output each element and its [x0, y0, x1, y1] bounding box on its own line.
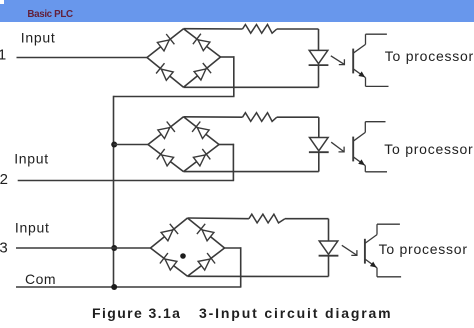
wire: R2 to LED drop	[277, 116, 319, 118]
wire: bridge BR3 edge left-top	[151, 218, 188, 248]
diode D2d (lower-right arm)	[193, 149, 210, 166]
wire: bridge BR2 edge bottom-left	[148, 145, 184, 172]
resistor R1	[243, 25, 277, 34]
junction: common bus to bridge2 left vertex	[111, 142, 117, 148]
wire: LED D3 return to bridge3 bottom vertex	[188, 275, 329, 277]
svg-text:3-Input circuit diagram: 3-Input circuit diagram	[199, 305, 392, 321]
diode D1a (lower-left arm)	[156, 63, 173, 80]
wire: terminal 2 riser	[232, 144, 234, 181]
wire: Com terminal lead	[16, 286, 241, 288]
wire: across to common bus	[114, 96, 235, 98]
optical coupling arrow 2	[331, 142, 344, 152]
optical coupling arrow 3	[342, 245, 357, 255]
diode D1b (upper-left arm)	[157, 34, 174, 51]
svg-text:To processor: To processor	[384, 141, 473, 157]
wire: LED D1 cathode down	[318, 65, 320, 87]
junction: common bus meets Com lead	[111, 284, 117, 290]
bridge rectifier BR3	[151, 218, 225, 276]
wire: bridge BR1 edge left-top	[147, 29, 184, 58]
junction: terminal 3 lead crossing common bus	[111, 245, 117, 251]
wire: terminal 2 input lead	[18, 180, 234, 182]
wire: bridge BR1 edge top-right	[184, 29, 221, 57]
wire: bridge BR3 edge bottom-left	[151, 248, 188, 276]
wire: bridge1 right vertex stub	[221, 56, 235, 58]
header bar (blue)	[0, 0, 474, 22]
resistor R2	[243, 113, 277, 122]
wire: vertical into LED D1 anode	[318, 29, 320, 50]
svg-text:2: 2	[0, 171, 8, 188]
phototransistor Q3	[365, 224, 401, 277]
wire: terminal 3 input lead	[16, 247, 151, 249]
LED D3 (optocoupler emitter)	[319, 241, 339, 256]
diode D3a (lower-left arm)	[160, 253, 177, 270]
wire: R1 to LED drop	[277, 28, 319, 30]
wire: bridge BR1 edge bottom-left	[147, 58, 184, 88]
wire: LED D2 cathode down	[318, 152, 320, 171]
wire: bridge BR1 edge right-bottom	[184, 57, 221, 87]
wire: vertical into LED D3 anode	[328, 219, 330, 241]
svg-text:Com: Com	[25, 271, 56, 287]
wire: bridge2 right vertex stub	[219, 144, 234, 146]
wire: LED D2 return to bridge2 bottom vertex	[184, 171, 319, 173]
wire: bridge3 right vertex stub	[225, 247, 242, 249]
svg-text:Basic PLC: Basic PLC	[27, 9, 73, 20]
wire: bridge1 top output to resistor R1	[184, 28, 243, 30]
optical coupling arrow 1	[331, 56, 345, 65]
diode D1c (upper-right arm)	[193, 34, 210, 51]
wire: bridge BR2 edge left-top	[148, 117, 184, 145]
wire: bus junction to bridge2 left vertex	[114, 144, 149, 146]
wire: R3 to LED drop	[285, 218, 329, 220]
svg-text:Input: Input	[15, 219, 50, 235]
diode D3b (upper-left arm)	[161, 224, 178, 241]
bridge rectifier BR2	[148, 117, 219, 172]
wire: bridge1 right vertex drop	[233, 56, 235, 96]
svg-text:To processor: To processor	[385, 48, 474, 64]
wire: bridge3 top output to resistor R3	[188, 217, 249, 220]
phototransistor Q1	[353, 34, 388, 86]
diode D1d (lower-right arm)	[194, 63, 211, 80]
wire: LED D1 return to bridge1 bottom vertex	[184, 86, 319, 88]
diode D3d (lower-right arm)	[198, 253, 215, 270]
wire: bridge2 top output to resistor R2	[184, 116, 243, 118]
wire: vertical into LED D2 anode	[318, 117, 320, 137]
wire: bridge BR2 edge top-right	[184, 117, 220, 145]
junction: node dot inside bridge3	[180, 253, 186, 259]
LED D2 (optocoupler emitter)	[309, 138, 329, 153]
wire: LED D3 cathode down	[328, 256, 330, 277]
diode D3c (upper-right arm)	[197, 224, 214, 241]
svg-text:Input: Input	[21, 30, 56, 46]
header corner notch (white)	[0, 0, 4, 4]
bridge rectifier BR1	[147, 29, 221, 88]
wire: terminal 1 input lead	[17, 57, 148, 59]
diode D2b (upper-left arm)	[158, 122, 175, 139]
diode D2c (upper-right arm)	[192, 122, 209, 139]
diode D2a (lower-left arm)	[157, 149, 174, 166]
phototransistor Q2	[353, 122, 387, 172]
LED D1 (optocoupler emitter)	[309, 50, 329, 65]
wire: bridge BR3 edge top-right	[188, 218, 225, 248]
svg-text:Figure 3.1a: Figure 3.1a	[92, 305, 181, 321]
svg-text:Input: Input	[14, 151, 49, 167]
wire: bridge BR2 edge right-bottom	[184, 145, 220, 172]
svg-text:1: 1	[0, 47, 6, 64]
svg-text:To processor: To processor	[379, 241, 468, 257]
wire: bridge3 right vertex drop to Com	[240, 247, 242, 287]
wire: bridge BR3 edge right-bottom	[188, 248, 225, 276]
resistor R3	[249, 214, 285, 223]
svg-text:3: 3	[0, 240, 8, 257]
wire: vertical common bus	[113, 96, 115, 287]
